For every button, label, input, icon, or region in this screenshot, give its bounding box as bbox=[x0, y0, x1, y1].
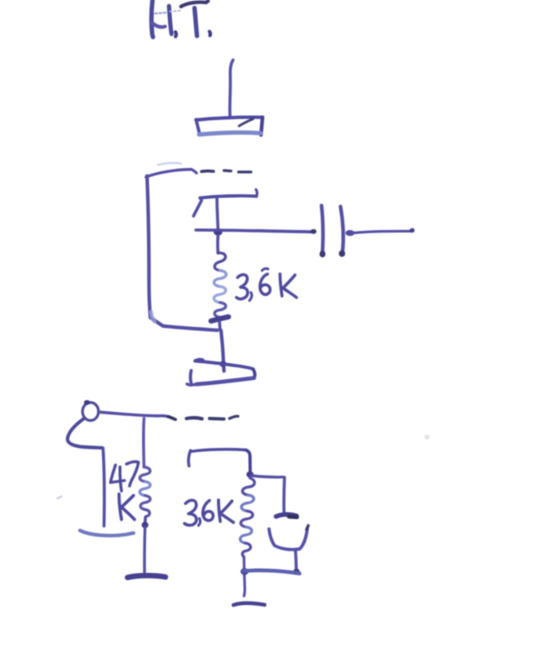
wire output right bbox=[345, 228, 414, 236]
wire input to grid bbox=[99, 412, 176, 420]
resistor R3 47K body bbox=[140, 467, 151, 528]
wire HT lead bbox=[230, 60, 233, 116]
node K1 junction bbox=[214, 228, 223, 235]
tube V1 cathode bbox=[194, 190, 258, 231]
tube V2 anode plate bbox=[187, 359, 255, 384]
capacitor C2 bypass bbox=[269, 514, 308, 574]
resistor R1 3.6K body bbox=[211, 253, 229, 329]
tube V2 cathode bbox=[189, 449, 251, 473]
resistor R3 47K lead bbox=[142, 419, 145, 468]
tube V1 grid (dashed) bbox=[158, 163, 251, 172]
node K2 junction bbox=[246, 471, 253, 477]
stray ink dot left bbox=[58, 497, 62, 499]
wire output bbox=[196, 229, 317, 234]
ground (cathode, bar 1) bbox=[244, 570, 300, 573]
label 3,6K (R2) bbox=[185, 500, 234, 526]
wire R3 to ground bbox=[143, 527, 146, 572]
label 47 bbox=[111, 462, 139, 491]
label H.T. bbox=[151, 0, 210, 37]
stray ink dot right bbox=[424, 435, 429, 440]
input jack J1 bbox=[67, 400, 104, 526]
wire cathode to bypass cap bbox=[251, 476, 285, 513]
node R2-ground junction bbox=[241, 568, 249, 575]
ground (jack sleeve) bbox=[80, 531, 134, 536]
wire grid feedback bracket bbox=[146, 169, 218, 330]
tube V2 grid (dashed) bbox=[187, 416, 239, 419]
resistor R1 3.6K top lead bbox=[216, 236, 219, 253]
wire R2 to ground bbox=[243, 557, 246, 596]
wire V2 anode lead bbox=[219, 331, 226, 372]
label 3,6K (R1) bbox=[237, 269, 297, 301]
label K bbox=[119, 494, 135, 520]
capacitor C1 coupling bbox=[320, 206, 346, 258]
ground (input stage) bbox=[128, 576, 166, 578]
resistor R2 3.6K body bbox=[240, 478, 254, 557]
ground (cathode, bar 2) bbox=[234, 603, 265, 605]
tube V1 anode plate bbox=[196, 117, 263, 135]
